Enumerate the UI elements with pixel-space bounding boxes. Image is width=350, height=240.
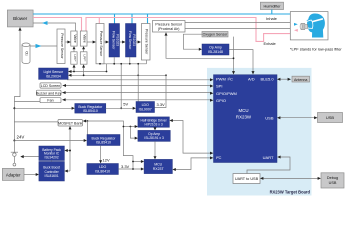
collector rail above power <box>100 63 147 65</box>
svg-text:3.3V: 3.3V <box>121 164 130 169</box>
wire LPF2 up <box>83 66 85 76</box>
wire cyan arrow into mask <box>294 23 298 26</box>
valve 2 <box>80 31 87 46</box>
debug USB box <box>321 173 344 188</box>
wire mosfet to half-bridge <box>84 121 133 169</box>
svg-text:Adapter: Adapter <box>6 172 21 177</box>
wire 24V rail vertical <box>14 28 20 141</box>
blower <box>7 10 33 27</box>
svg-text:MOSFET Bank: MOSFET Bank <box>58 122 82 126</box>
wire RX23T I2C loop <box>174 158 212 170</box>
wire oxygen to op-amp <box>183 34 202 49</box>
svg-text:Valve: Valve <box>73 34 77 42</box>
bus line B3 PWM <box>67 79 212 81</box>
buzzer and key <box>36 90 61 95</box>
MCU RX23W <box>214 75 278 163</box>
svg-text:ISL9007: ISL9007 <box>139 107 152 111</box>
svg-text:SPI: SPI <box>216 84 222 89</box>
wire fan branch <box>14 101 40 103</box>
wire buck1 input <box>14 107 73 109</box>
wire oxygen tap down <box>233 37 235 59</box>
LDO9007 riser <box>137 64 139 102</box>
wire proximal tube lines to mask <box>185 22 300 24</box>
svg-text:Flow Sensor: Flow Sensor <box>128 31 132 50</box>
svg-text:Buzzer and Key: Buzzer and Key <box>36 91 62 95</box>
svg-text:I²C: I²C <box>216 155 221 160</box>
svg-text:Pressure Sensor: Pressure Sensor <box>145 29 149 55</box>
svg-text:Exhale: Exhale <box>264 41 277 46</box>
svg-text:Flow Sensor: Flow Sensor <box>112 31 116 50</box>
svg-text:LCD Screen: LCD Screen <box>41 84 61 88</box>
wire LPF2 to valve2 <box>83 48 85 52</box>
svg-text:Pressure Sensor: Pressure Sensor <box>60 33 64 59</box>
mask <box>307 20 313 28</box>
wire humidifier drop <box>271 10 273 15</box>
wire half-bridge to op-amp <box>154 127 156 129</box>
svg-text:ISL85410: ISL85410 <box>83 109 98 113</box>
battery pack monitor ISL94202 <box>39 146 65 161</box>
wire sensor stub P2 <box>99 62 101 65</box>
svg-text:USB: USB <box>326 115 335 120</box>
buck regulator 2 ISL85410 <box>87 135 120 146</box>
wire op-amp to RX23T <box>154 141 156 158</box>
strap <box>309 18 323 23</box>
bus line B6 GPIO <box>62 99 212 101</box>
pressure sensor 1 <box>57 29 65 64</box>
svg-text:Blower: Blower <box>13 16 28 21</box>
svg-text:(Proximal Air): (Proximal Air) <box>158 27 180 31</box>
node rail-buck1 <box>13 107 15 109</box>
svg-text:FS1023: FS1023 <box>116 34 120 46</box>
svg-text:ISL28191 x 3: ISL28191 x 3 <box>144 136 164 140</box>
LPF 1 <box>71 52 77 64</box>
wire BLE to antenna <box>279 78 290 80</box>
svg-text:ISL28148: ISL28148 <box>208 50 223 54</box>
wire LPF1 up <box>73 66 75 72</box>
LDO ISL80410 <box>87 164 119 175</box>
wire buck2 input <box>14 140 85 142</box>
wire adapter to buck-boost <box>24 174 38 176</box>
LDO ISL9007 <box>136 102 155 113</box>
UART to USB box <box>233 174 260 184</box>
svg-text:Oxygen Sensor: Oxygen Sensor <box>203 33 229 37</box>
3.3V riser <box>155 75 167 107</box>
wire inhale cyan main <box>33 14 295 23</box>
flow sensor 2 FS1023 <box>126 24 137 58</box>
svg-text:Valve: Valve <box>83 34 87 42</box>
svg-text:5V: 5V <box>123 101 128 106</box>
wire op-amp output to MCU A/D <box>229 50 253 73</box>
svg-text:MCU: MCU <box>239 108 249 113</box>
svg-text:I²C: I²C <box>228 77 233 82</box>
O2 cylinder <box>22 43 30 64</box>
node rail-buck2 <box>13 140 15 142</box>
bus line B4 SPI <box>63 85 212 87</box>
svg-text:Antenna: Antenna <box>294 78 307 82</box>
valve 1 <box>71 31 77 46</box>
svg-text:12V: 12V <box>103 158 110 163</box>
svg-text:ISL94202: ISL94202 <box>45 156 59 160</box>
buck regulator 1 ISL85410 <box>75 104 106 114</box>
wire cyan arrow into blower <box>42 21 48 25</box>
pressure sensor proximal air <box>153 21 186 33</box>
svg-text:LPF*: LPF* <box>83 55 87 63</box>
connector icon <box>305 25 308 29</box>
MOSFET bank <box>58 120 83 127</box>
LCD screen <box>40 83 61 88</box>
wire battery interlink <box>51 161 53 162</box>
wire cyan drop flow1 <box>114 14 116 24</box>
svg-text:HIP2103 x 3: HIP2103 x 3 <box>145 122 163 126</box>
wire pink arrow from mask <box>294 29 298 32</box>
svg-text:FS1023: FS1023 <box>132 34 136 46</box>
adapter <box>2 168 24 180</box>
wire mosfet branch <box>14 121 58 123</box>
bus line B2 light sensor lower <box>68 74 166 76</box>
op-amp ISL28148 <box>202 44 229 55</box>
svg-text:ISL85410: ISL85410 <box>96 141 111 145</box>
flow arrows between top boxes <box>66 41 68 43</box>
wire UART loop <box>247 157 290 173</box>
svg-text:LPF*: LPF* <box>73 55 77 63</box>
wire half-bridge I2C loop <box>171 121 212 154</box>
antenna <box>292 76 310 82</box>
buck boost controller ISL81601 <box>39 162 65 182</box>
wire 24V to buck2 top <box>86 121 88 135</box>
patient mask box <box>290 12 328 40</box>
svg-text:GPIO/PWM: GPIO/PWM <box>216 91 237 96</box>
svg-text:UART: UART <box>263 155 274 160</box>
svg-text:RX23W: RX23W <box>236 115 252 120</box>
pressure sensor 3 <box>142 24 151 61</box>
oxygen sensor <box>202 32 228 37</box>
wire LDO80410 3.3V to RX23T <box>118 168 142 170</box>
wire UART-USB to debug <box>262 177 320 179</box>
wire sensor stub F2 <box>129 57 131 64</box>
bus line B1 light sensor upper <box>68 71 106 73</box>
LPF 2 <box>80 52 87 64</box>
svg-text:ISL80410: ISL80410 <box>95 169 110 173</box>
svg-text:Humidifier: Humidifier <box>263 4 281 8</box>
svg-text:Inhale: Inhale <box>266 16 278 21</box>
wire pink drop pressure2 <box>98 18 100 25</box>
svg-text:24V: 24V <box>17 135 25 140</box>
wire RX23T upper stub <box>133 161 143 163</box>
bus line B5 GPIO/PWM <box>62 92 212 94</box>
svg-text:RX23T: RX23T <box>153 167 165 171</box>
svg-text:USB: USB <box>265 116 274 121</box>
5V riser <box>120 64 122 109</box>
svg-text:*LPF stands for low-pass filte: *LPF stands for low-pass filter <box>290 47 342 52</box>
MCU RX23T <box>144 159 172 173</box>
svg-text:O2: O2 <box>24 51 28 56</box>
flow sensor 1 FS1023 <box>109 24 120 58</box>
svg-text:Debug: Debug <box>327 176 338 180</box>
wire exhale pink blower side <box>33 18 81 32</box>
wire exhale pink mask side <box>86 18 294 42</box>
wire branch to op-amp 28191 <box>130 127 136 139</box>
svg-text:BLE5.0: BLE5.0 <box>261 77 275 82</box>
light sensor ISL29034 <box>39 68 69 79</box>
wire cyan drop pressure3 <box>147 14 149 24</box>
half-bridge driver HIP2103 x3 <box>138 117 170 127</box>
humidifier <box>260 2 283 9</box>
wire buck2 to LDO80410 12V <box>100 146 102 163</box>
RX23W target board background <box>207 68 312 196</box>
wire proximal sense line <box>166 36 234 74</box>
wire sensor stub P3 <box>146 60 148 64</box>
wire blower supply arrowhead <box>18 27 21 30</box>
svg-text:Pressure Sensor: Pressure Sensor <box>99 31 103 57</box>
svg-text:3.3V: 3.3V <box>157 102 166 107</box>
op amp ISL28191 x3 <box>138 130 170 141</box>
wire cyan drop flow2 <box>131 14 133 24</box>
wire battery-pack to rail <box>22 156 39 158</box>
wire sensor stub F1 <box>113 57 115 64</box>
svg-text:USB: USB <box>329 181 337 185</box>
svg-text:A/D: A/D <box>248 77 255 82</box>
wire buck1 to LDO 5V <box>106 107 135 109</box>
svg-text:RX23W Target Board: RX23W Target Board <box>270 190 311 195</box>
wire O2 to pressure1 <box>30 45 57 47</box>
svg-text:PWM: PWM <box>216 77 226 82</box>
wire plug symbol <box>13 141 15 153</box>
fan <box>40 98 61 103</box>
wire blower intake gray <box>33 23 75 31</box>
svg-text:ISL81601: ISL81601 <box>45 174 59 178</box>
svg-text:GPIO: GPIO <box>216 98 226 103</box>
wire MCU to USB <box>279 117 317 119</box>
svg-text:UART to USB: UART to USB <box>235 177 259 181</box>
pressure sensor 2 <box>96 24 104 64</box>
wire mosfet to battery rail <box>69 126 71 171</box>
wire LPF1 to valve1 <box>73 48 75 52</box>
svg-text:Pressure Sensor: Pressure Sensor <box>155 22 183 26</box>
wire branch to half-bridge <box>123 126 136 128</box>
USB box <box>318 113 343 123</box>
head silhouette <box>307 13 325 37</box>
svg-text:Fan: Fan <box>47 99 53 103</box>
svg-text:ISL29034: ISL29034 <box>46 74 61 78</box>
svg-text:MCU: MCU <box>154 162 162 166</box>
